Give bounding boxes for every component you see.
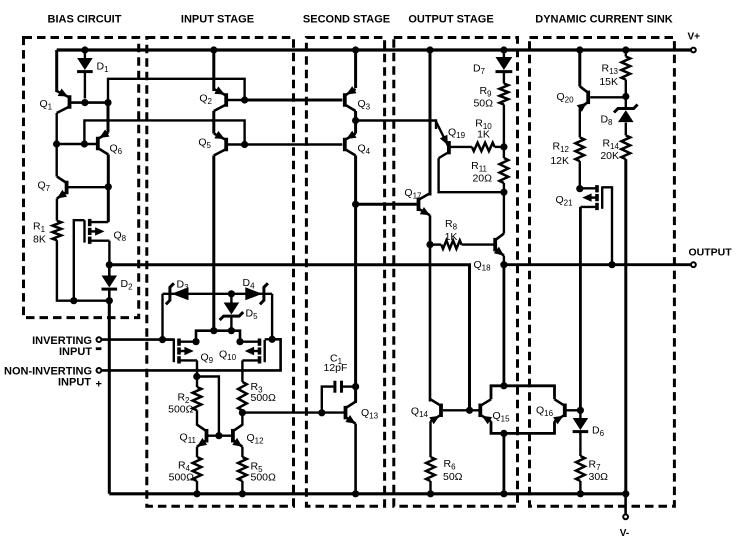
junction R14 column / V- rail: [622, 490, 629, 497]
resistor R13: [621, 50, 630, 97]
wire Q15/Q16 emitter bottom line: [491, 421, 555, 433]
junction Q8 source / D2 / link to Q14: [106, 261, 113, 268]
resistor R6: [426, 457, 435, 481]
wire Q13 emitter to V- rail: [354, 424, 357, 494]
R12 value label 12K: [550, 141, 569, 168]
svg-text:15K: 15K: [599, 76, 618, 88]
junction Q2 base / Q3 base line: [241, 96, 248, 103]
svg-text:12K: 12K: [550, 155, 569, 167]
wire Q8 drain from Q7 base node: [107, 187, 110, 222]
svg-text:500Ω: 500Ω: [168, 404, 194, 416]
wire R11 leads: [503, 147, 505, 192]
R2 value label 500 ohm: [168, 392, 194, 416]
wire D3 D4 anode line: [163, 293, 273, 295]
resistor R11: [500, 158, 509, 183]
junction R4 / V- rail: [193, 490, 200, 497]
svg-text:INPUT: INPUT: [59, 346, 92, 358]
dashed box INPUT STAGE: [147, 38, 294, 507]
wire Q2 collector to Q5 emitter: [212, 111, 215, 134]
wire Q1 emitter from V+ rail: [55, 50, 58, 92]
wire non-inverting input line: [102, 339, 281, 370]
junction Q10 gate / D4 / non-inverting line: [269, 336, 276, 343]
junction Q8 gate / bias lower node: [70, 297, 77, 304]
wire Q6 emitter from Q1 base node: [107, 103, 110, 133]
svg-text:V+: V+: [688, 32, 701, 43]
resistor R1: [53, 221, 62, 241]
wire Q9 gate lead: [163, 338, 174, 341]
wire Q12 emitter to R5: [241, 447, 243, 457]
wire Q17 collector from V+ rail: [429, 50, 432, 196]
R4 value label 500 ohm: [169, 460, 195, 484]
junction Q14 base / link from D2 node / Q15 base: [466, 407, 473, 414]
transistor Q17: [404, 187, 430, 215]
transistor Q12: [232, 425, 264, 447]
zener diode D3: [166, 279, 189, 305]
diode D7: [473, 50, 512, 84]
junction Q21 gate / OUTPUT line: [608, 261, 615, 268]
wire Q1 collector down to Q6 base node: [56, 113, 58, 144]
svg-text:50Ω: 50Ω: [473, 98, 493, 110]
wire V- drop to terminal: [624, 494, 627, 514]
wire Q5 collector down to input pair node: [212, 156, 215, 331]
wire OUTPUT line: [504, 263, 690, 266]
junction top rail / Q17 column: [426, 46, 433, 53]
transistor Q4: [345, 131, 371, 156]
wire Q2 base lead: [228, 99, 245, 101]
wire R5 bottom to V- rail: [241, 481, 243, 494]
wire Q5 base to Q4 base line: [245, 143, 343, 145]
wire Q8 gate lead: [74, 220, 85, 301]
R7 value label 30 ohm: [589, 459, 609, 484]
R14 value label 20K: [600, 138, 619, 163]
junction D4 anode / D5 top: [228, 290, 235, 297]
terminal OUTPUT: [689, 247, 733, 268]
wire input pair top link line: [196, 331, 240, 342]
resistor R10 with label 1K: [472, 118, 504, 152]
transistor Q14: [411, 399, 441, 424]
svg-text:500Ω: 500Ω: [251, 392, 277, 404]
wire R14 bottom down to V- rail: [624, 159, 627, 494]
zener diode D8: [600, 97, 637, 136]
wire Q6 base node down to Q7 collector: [56, 144, 58, 177]
R13 value label 15K: [599, 63, 618, 89]
junction R11 / Q19 collector / Q18 collector: [500, 189, 507, 196]
wire Q4 collector down to Q13 collector: [354, 156, 357, 404]
junction Q1 base / link to input stage: [104, 99, 111, 106]
wire Q16 base lead: [566, 409, 580, 411]
junction Q17 base line / second stage column: [352, 201, 359, 208]
junction C1 / second stage column: [352, 383, 359, 390]
junction R6 / V- rail: [427, 490, 434, 497]
junction Q18 emitter / OUTPUT line: [500, 261, 507, 268]
svg-text:DYNAMIC CURRENT SINK: DYNAMIC CURRENT SINK: [535, 14, 673, 26]
wire V+ top rail: [57, 48, 692, 51]
R1 value label 8K: [33, 221, 46, 246]
diode D6: [573, 410, 605, 456]
wire output node down to Q15/Q16 collectors: [502, 265, 505, 386]
zener diode D4: [243, 277, 268, 304]
wire Q10 gate lead: [265, 338, 272, 340]
wire inverting input line: [102, 338, 174, 341]
junction Q15/Q16 collectors / output column: [500, 382, 507, 389]
wire Q10 source down to R3: [241, 360, 243, 382]
transistor Q19: [436, 122, 466, 159]
junction Q9 drain: [192, 338, 199, 345]
wire Q20 base lead: [590, 96, 626, 98]
wire Q14 base lead: [443, 409, 468, 411]
dashed box SECOND STAGE: [306, 38, 384, 507]
wire Q9 source down through R2 branch: [196, 360, 198, 387]
junction input pair top node / D5: [210, 327, 217, 334]
wire R8 to Q18 base: [462, 243, 495, 245]
svg-text:500Ω: 500Ω: [251, 472, 277, 484]
wire base branch to Q11/Q12 bases: [197, 377, 219, 436]
wire bias-to-Q2-base link: [108, 79, 245, 103]
wire Q19 emitter link line: [356, 121, 436, 130]
svg-text:OUTPUT: OUTPUT: [689, 247, 733, 259]
junction inverting input / D3 / Q9 gate: [159, 336, 166, 343]
wire Q12 base lead: [219, 435, 232, 437]
svg-text:30Ω: 30Ω: [589, 471, 609, 483]
svg-text:BIAS CIRCUIT: BIAS CIRCUIT: [48, 14, 122, 26]
wire D4 right end down to Q10 gate: [271, 294, 273, 340]
wire Q7 base lead: [69, 186, 109, 188]
R5 value label 500 ohm: [251, 461, 277, 484]
wire Q6 collector down to Q7 base node: [107, 155, 110, 187]
wire R8 node down to Q14 collector: [429, 245, 432, 402]
terminal V+: [688, 32, 701, 53]
junction Q11 Q12 bases: [215, 432, 222, 439]
junction top rail / D7: [500, 46, 507, 53]
terminal NON-INVERTING INPUT: [4, 366, 102, 391]
svg-text:20K: 20K: [600, 150, 619, 162]
diode D2: [102, 265, 134, 301]
junction Q15/Q16 emitters node: [500, 430, 507, 437]
junction C1 left lead / Q13 base line: [318, 409, 325, 416]
transistor Q9 (MOSFET): [174, 339, 214, 366]
transistor Q6: [98, 130, 123, 157]
wire R1 bottom to bias lower node: [57, 240, 109, 300]
wire R12 bottom to Q21 drain: [579, 161, 581, 189]
resistor R7: [576, 456, 585, 481]
junction top rail / R13: [622, 46, 629, 53]
wire Q14 emitter to R6: [429, 421, 431, 457]
wire Q5 base lead: [228, 143, 245, 145]
svg-text:INPUT: INPUT: [58, 377, 91, 389]
resistor R4: [193, 457, 202, 481]
wire Q1 base line: [71, 101, 108, 104]
wire Q17 base line: [356, 203, 417, 206]
junction emitters / V- rail: [500, 490, 507, 497]
zener diode D5: [220, 294, 258, 331]
transistor Q15: [480, 399, 510, 424]
svg-text:8K: 8K: [33, 234, 46, 246]
wire Q19 base lead: [451, 146, 472, 148]
wire Q7 emitter to R1: [56, 199, 58, 221]
label SECOND STAGE section title: [303, 14, 390, 26]
svg-text:INPUT STAGE: INPUT STAGE: [181, 14, 254, 26]
wire Q11 base lead: [208, 435, 219, 437]
svg-text:+: +: [96, 379, 102, 391]
junction Q21 drain / R12: [576, 185, 583, 192]
wire Q18 emitter to output node: [503, 256, 505, 265]
junction Q9 source / Q11 Q12 base branch: [193, 373, 200, 380]
junction Q6 base / link riser: [81, 140, 88, 147]
wire R6 bottom to V- rail: [429, 481, 431, 494]
transistor Q13: [345, 402, 378, 424]
junction R3 bottom / Q12 collector / Q13 base line: [239, 409, 246, 416]
transistor Q18: [474, 234, 504, 273]
svg-text:OUTPUT STAGE: OUTPUT STAGE: [408, 14, 493, 26]
junction top rail / D1: [81, 46, 88, 53]
svg-text:50Ω: 50Ω: [443, 471, 463, 483]
transistor Q7: [38, 177, 68, 199]
junction Q10 drain: [236, 338, 243, 345]
wire D2 node to Q14 collector link: [109, 265, 469, 411]
wire Q2 base to Q3 base line: [245, 99, 343, 102]
resistor R8 with label 1K: [430, 218, 462, 249]
junction Q16 base / D6 column: [577, 407, 584, 414]
transistor Q10 (MOSFET): [219, 339, 265, 364]
terminal INVERTING INPUT: [32, 335, 101, 358]
resistor R12: [575, 137, 584, 161]
wire Q15 base lead: [470, 409, 479, 411]
resistor R5: [238, 457, 247, 481]
svg-text:SECOND STAGE: SECOND STAGE: [303, 14, 390, 26]
wire Q3/Q4 chain from V+ rail: [354, 50, 357, 88]
terminal V-: [620, 514, 629, 539]
transistor Q3: [345, 86, 371, 111]
wire Q21 gate lead to output line: [602, 187, 612, 264]
R9 value label 50 ohm: [473, 85, 493, 110]
wire V- bottom rail: [109, 492, 625, 495]
resistor R14: [621, 135, 630, 159]
transistor Q5: [198, 131, 226, 156]
junction D1 / Q1 base: [81, 99, 88, 106]
svg-text:20Ω: 20Ω: [472, 173, 492, 185]
wire Q17 emitter down to R8 node: [429, 215, 432, 244]
label OUTPUT STAGE section title: [408, 14, 493, 26]
svg-text:500Ω: 500Ω: [169, 472, 195, 484]
wire Q3 collector to node: [354, 111, 357, 134]
R6 value label 50 ohm: [443, 458, 463, 483]
transistor Q21 (MOSFET): [556, 185, 603, 210]
label DYNAMIC CURRENT SINK section title: [535, 14, 673, 26]
junction top rail / Q20 column: [576, 46, 583, 53]
svg-text:V-: V-: [620, 528, 629, 539]
capacitor C1: [322, 353, 356, 413]
wire R9 bottom to R10 node: [503, 105, 505, 147]
wire Q11 emitter to R4: [196, 447, 198, 457]
wire D2 node down to V- rail: [108, 301, 111, 494]
transistor Q8 (MOSFET): [85, 219, 127, 244]
label BIAS CIRCUIT section title: [48, 14, 122, 26]
wire Q19 collector loop to R11 bottom: [439, 158, 504, 192]
junction Q20 base / R13 / D8 node: [622, 93, 629, 100]
dashed box DYNAMIC CURRENT SINK: [530, 38, 675, 507]
junction D2 bottom / R1 / Q8 gate node: [106, 297, 113, 304]
junction Q7 base / Q8 drain column: [105, 183, 112, 190]
junction Q1 collector / Q6 base line: [53, 140, 60, 147]
transistor Q11: [180, 425, 208, 447]
junction Q13 emitter / V- rail: [352, 490, 359, 497]
resistor R2: [193, 387, 202, 410]
label INPUT STAGE section title: [181, 14, 254, 26]
junction top rail / Q3 chain: [352, 46, 359, 53]
wire Q21 source down to Q16 base node: [579, 207, 582, 410]
junction D5 bottom node: [228, 327, 235, 334]
junction Q5 base / Q4 base line: [241, 141, 248, 148]
transistor Q20: [557, 86, 589, 112]
junction R7 / V- rail: [577, 490, 584, 497]
wire emitters node down to V- rail: [502, 433, 505, 493]
junction top rail / Q2 chain: [210, 46, 217, 53]
wire Q15/Q16 collector top line: [491, 386, 555, 400]
wire Q6 base line: [57, 143, 97, 146]
resistor R9: [500, 84, 509, 105]
wire Q20 column from V+ rail: [578, 50, 581, 87]
junction R9 / R10 / R11 node: [500, 143, 507, 150]
svg-text:1K: 1K: [445, 231, 458, 243]
junction R5 / V- rail: [239, 490, 246, 497]
diode D1: [77, 50, 109, 99]
wire R4 bottom to V- rail: [196, 481, 198, 494]
transistor Q1: [40, 89, 70, 114]
svg-text:1K: 1K: [477, 129, 490, 141]
dashed box OUTPUT STAGE: [394, 38, 518, 507]
transistor Q2: [199, 86, 226, 111]
transistor Q16: [536, 399, 565, 424]
wire bias-to-Q5-base link: [84, 120, 244, 144]
resistor R3: [238, 382, 247, 411]
junction Q17 emitter / R8 / Q14 collector column: [426, 241, 433, 248]
wire D3 left end down to inverting line: [161, 294, 163, 340]
wire Q8 source down to D2 node: [108, 241, 110, 265]
wire Q20 emitter to R12: [579, 108, 581, 137]
junction Q3/Q4 node to Q19 line: [352, 117, 359, 124]
wire R2 bottom to Q11 collector: [196, 410, 198, 425]
wire Q13 base line from R3 node: [242, 411, 344, 413]
R11 value label 20 ohm: [471, 160, 492, 185]
wire R7 bottom to V- rail: [579, 481, 581, 494]
svg-text:12pF: 12pF: [324, 362, 348, 374]
R3 value label 500 ohm: [251, 381, 277, 404]
dashed box BIAS CIRCUIT: [24, 38, 139, 318]
wire R3 bottom to Q12 collector: [241, 411, 243, 426]
wire Q2/Q5 chain from V+ rail: [212, 50, 215, 91]
wire Q18 collector up to R11 node: [503, 192, 505, 233]
